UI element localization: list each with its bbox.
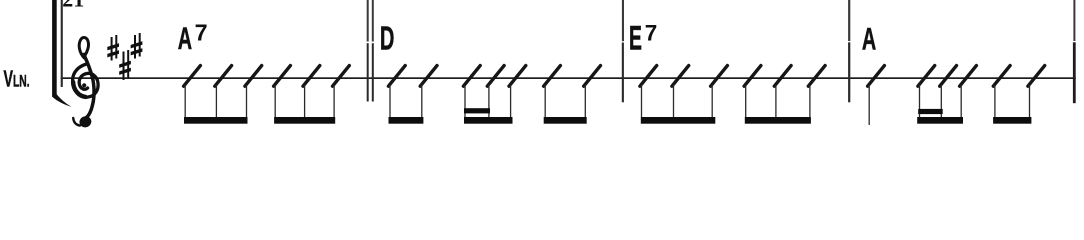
m3 group1 beam xyxy=(641,117,716,124)
key signature sharp 2 xyxy=(119,50,131,80)
m3 group2 slash noteheads and stems xyxy=(744,66,761,87)
top barline stubs from staff above xyxy=(367,0,1076,42)
m4 group3 beam xyxy=(993,117,1031,124)
m4 group2 beam xyxy=(917,117,963,124)
m1 group1 slash noteheads and stems xyxy=(184,66,201,87)
chord symbol E7 xyxy=(629,19,642,57)
svg-text:A: A xyxy=(178,20,192,56)
m2 group2 slash noteheads and stems xyxy=(463,66,480,87)
m2 group2 beam xyxy=(464,117,513,124)
m4 group2 slash noteheads and stems xyxy=(918,66,935,87)
svg-text:VLN.: VLN. xyxy=(4,67,30,92)
svg-text:A: A xyxy=(862,21,876,57)
final barline xyxy=(1073,42,1076,103)
m1 group2 slash noteheads and stems xyxy=(274,66,291,87)
m2 group1 beam xyxy=(389,117,424,124)
treble clef xyxy=(73,38,99,126)
m4 group3 slash noteheads and stems xyxy=(993,66,1010,87)
svg-text:7: 7 xyxy=(195,20,208,46)
barline m3/m4 xyxy=(848,42,850,102)
system barline xyxy=(61,0,63,87)
staff line xyxy=(61,77,1076,79)
m1 group1 beam xyxy=(184,117,248,124)
bracket xyxy=(52,0,72,107)
m2 group2 16th beam xyxy=(464,108,490,113)
m2 group1 slash noteheads and stems xyxy=(388,66,405,87)
chord symbol D xyxy=(380,19,395,57)
m4 quarter slash notehead and stem xyxy=(868,66,885,87)
m3 group1 slash noteheads and stems xyxy=(640,66,657,87)
m4 group2 16th beam xyxy=(918,109,943,114)
clef spiral center dot xyxy=(82,83,86,87)
key signature sharp 1 xyxy=(107,35,119,61)
svg-text:E: E xyxy=(629,19,642,57)
m1 group2 beam xyxy=(274,117,335,124)
barline m2/m3 xyxy=(622,43,624,103)
svg-text:7: 7 xyxy=(645,21,658,46)
Vln. staff label xyxy=(4,67,30,92)
svg-text:D: D xyxy=(380,19,395,57)
clef spiral heavy arc xyxy=(73,82,85,97)
chord symbol A xyxy=(862,21,876,57)
m3 group2 beam xyxy=(745,117,811,124)
clef bottom blob xyxy=(78,115,93,129)
m2 group3 slash noteheads and stems xyxy=(544,66,561,87)
double barline m1/m2 xyxy=(367,43,369,101)
chord symbol A7 xyxy=(178,20,192,56)
svg-text:21: 21 xyxy=(62,0,84,12)
key signature sharp 3 xyxy=(131,33,143,59)
m2 group3 beam xyxy=(544,117,587,124)
